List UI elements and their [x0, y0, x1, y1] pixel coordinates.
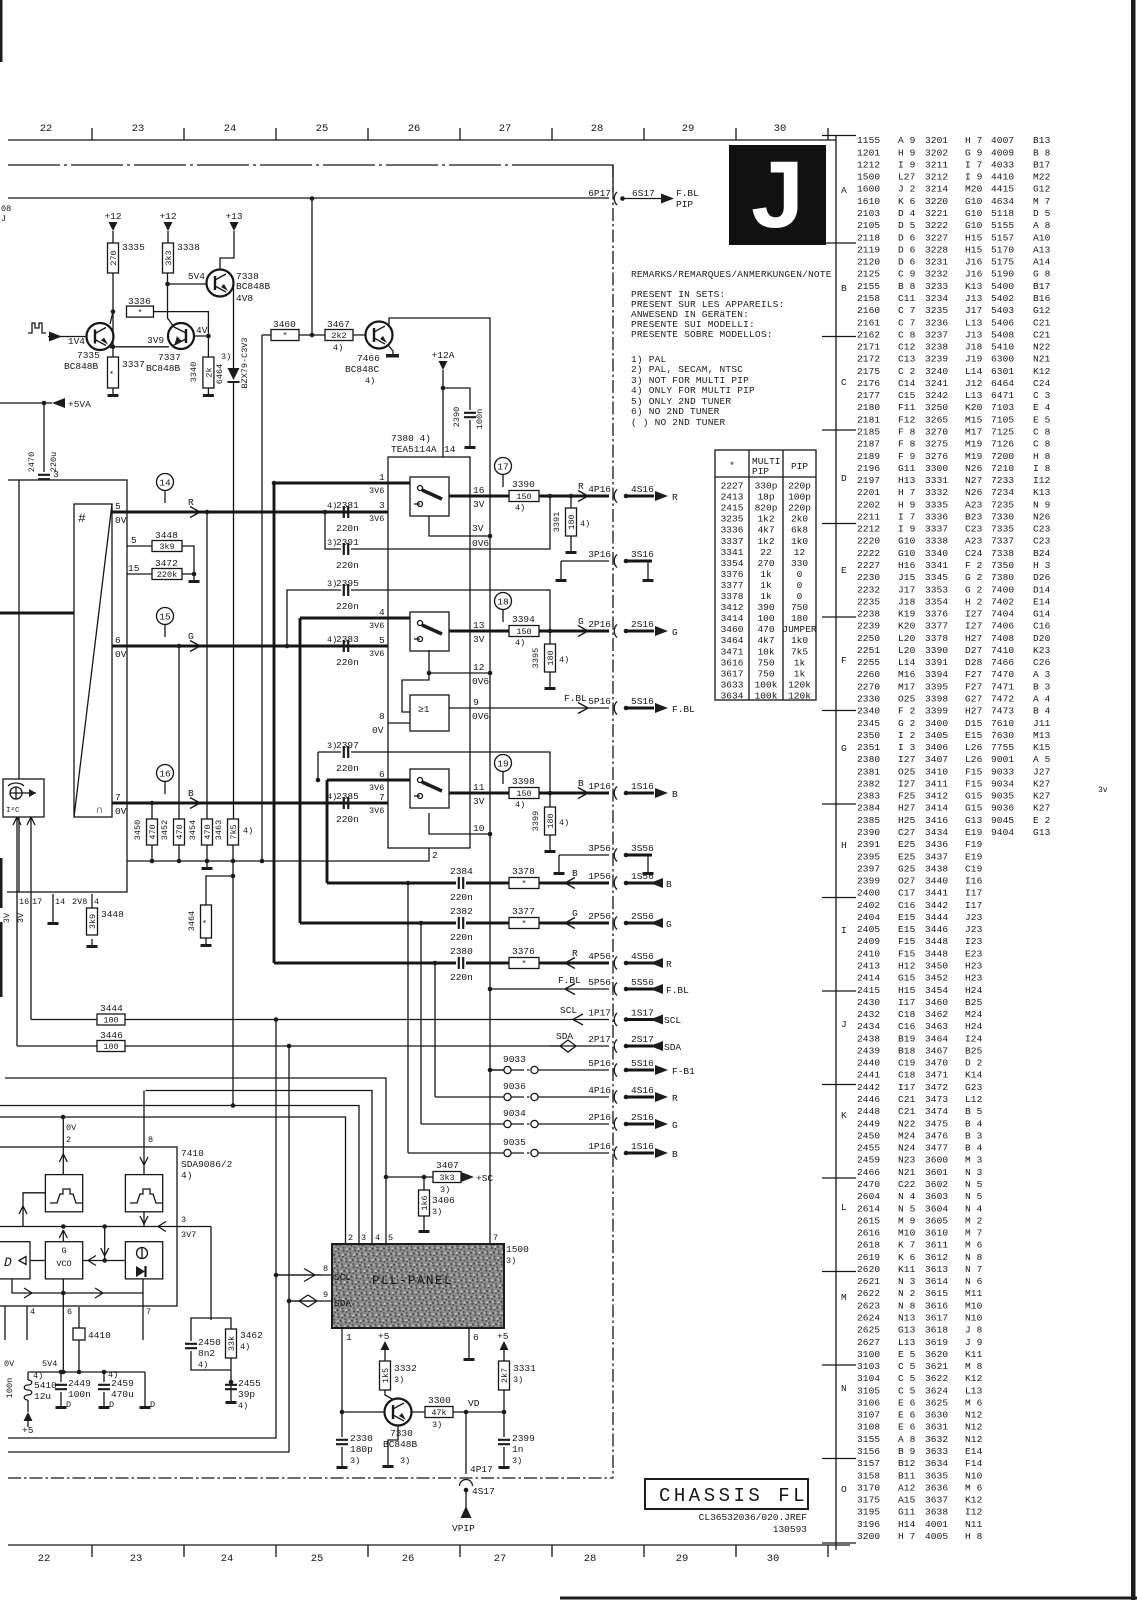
svg-text:1n: 1n: [512, 1444, 523, 1455]
capacitor C2470 220u: [43, 403, 45, 500]
connector 6P17/6S17: [614, 192, 617, 205]
svg-text:180p: 180p: [350, 1444, 373, 1455]
svg-text:2125C 93232J165190G 8: 2125C 93232J165190G 8: [857, 269, 1051, 280]
svg-text:3V: 3V: [473, 634, 485, 645]
wire SDA vertical to PLL: [289, 1046, 316, 1301]
svg-text:2459N233600M 3: 2459N233600M 3: [857, 1155, 983, 1166]
svg-text:220n: 220n: [450, 932, 473, 943]
resistor R3391: [570, 496, 572, 508]
svg-text:3331: 3331: [513, 1363, 536, 1374]
svg-text:G: G: [666, 919, 672, 930]
svg-text:PLL-PANEL: PLL-PANEL: [372, 1274, 453, 1288]
svg-text:3463: 3463: [214, 820, 224, 840]
svg-text:7335: 7335: [77, 350, 100, 361]
svg-text:2330: 2330: [350, 1433, 373, 1444]
svg-text:G: G: [578, 616, 584, 627]
svg-text:2620K113613N 7: 2620K113613N 7: [857, 1264, 982, 1275]
svg-text:29: 29: [682, 123, 695, 135]
wire F.BL 5P56 row: [490, 988, 609, 990]
svg-text:3464: 3464: [721, 635, 744, 646]
svg-text:100p: 100p: [788, 492, 811, 503]
svg-text:2382: 2382: [450, 906, 473, 917]
svg-text:180: 180: [567, 514, 577, 529]
svg-text:2380I273407L269001A 5: 2380I273407L269001A 5: [857, 754, 1051, 765]
bottom grid ruler: [8, 1544, 850, 1546]
svg-text:2235J183354H 27402E14: 2235J183354H 27402E14: [857, 596, 1051, 607]
svg-text:2230J153345G 27380D26: 2230J153345G 27380D26: [857, 572, 1051, 583]
svg-text:2350I 23405E157630M13: 2350I 23405E157630M13: [857, 730, 1051, 741]
svg-text:SDA: SDA: [556, 1031, 573, 1042]
svg-text:4): 4): [181, 1170, 192, 1181]
svg-text:3157B123634F14: 3157B123634F14: [857, 1458, 983, 1469]
connector 2S16b: [614, 1118, 617, 1131]
svg-text:3378: 3378: [512, 866, 535, 877]
svg-text:3200H 74005H 8: 3200H 74005H 8: [857, 1531, 983, 1542]
capacitor C2384: [459, 877, 463, 889]
ground gnd 2470: [43, 500, 45, 506]
svg-text:2P56: 2P56: [588, 911, 611, 922]
wire base: [342, 1411, 385, 1413]
svg-text:2103D 43221G105118D 5: 2103D 43221G105118D 5: [857, 208, 1051, 219]
svg-text:3332: 3332: [394, 1363, 417, 1374]
svg-text:3): 3): [350, 1456, 360, 1466]
remarks text block: [631, 270, 832, 340]
resistor R3336: [127, 306, 154, 317]
svg-text:2399O273440I16: 2399O273440I16: [857, 876, 983, 887]
svg-text:+12: +12: [159, 211, 176, 222]
svg-text:*: *: [521, 879, 526, 889]
resistor R3446: [97, 1041, 125, 1052]
wire pulse to 7335 base: [48, 336, 87, 338]
svg-text:*: *: [521, 919, 526, 929]
svg-text:J: J: [1, 214, 6, 224]
svg-text:16: 16: [159, 768, 171, 779]
ground gnd 3406: [423, 1224, 425, 1230]
resistor R3398: [509, 788, 539, 799]
svg-text:1P17: 1P17: [588, 1008, 611, 1019]
svg-text:3V9: 3V9: [147, 335, 164, 346]
svg-text:1k: 1k: [760, 591, 772, 602]
connector 4P56: [614, 957, 617, 970]
svg-text:3377: 3377: [721, 580, 744, 591]
svg-text:100: 100: [757, 613, 774, 624]
svg-text:2450: 2450: [198, 1337, 221, 1348]
svg-text:+SC: +SC: [476, 1173, 493, 1184]
svg-text:SDA: SDA: [664, 1042, 681, 1053]
wire 3P16 ground row: [561, 561, 609, 573]
svg-text:3V: 3V: [2, 912, 12, 923]
svg-text:4S17: 4S17: [472, 1486, 495, 1497]
connector 1P17: [614, 1013, 617, 1026]
wire G pin4 PIP input: [300, 617, 410, 620]
right page edge black bar: [1131, 0, 1136, 1600]
svg-text:7: 7: [493, 1233, 498, 1243]
switch SW-R: [410, 477, 449, 516]
svg-text:24: 24: [221, 1553, 234, 1565]
chassis title box: [645, 1479, 808, 1509]
wire B video line: [112, 802, 410, 805]
svg-text:2V8: 2V8: [72, 897, 87, 907]
svg-text:2442I173472G23: 2442I173472G23: [857, 1082, 983, 1093]
ground gnd 2459: [103, 1400, 105, 1406]
svg-text:3378: 3378: [721, 591, 744, 602]
svg-text:470: 470: [203, 824, 213, 839]
svg-text:2395E253437E19: 2395E253437E19: [857, 851, 983, 862]
svg-text:18: 18: [497, 596, 509, 607]
resistor R3335: [108, 243, 119, 273]
svg-text:100k: 100k: [755, 690, 778, 701]
svg-text:130593: 130593: [773, 1524, 808, 1535]
svg-text:22: 22: [40, 123, 53, 135]
svg-text:2330O253398G277472A 4: 2330O253398G277472A 4: [857, 694, 1051, 705]
loop filter 2450/3462: [211, 861, 233, 1320]
svg-text:8: 8: [379, 711, 385, 722]
svg-text:0V: 0V: [372, 725, 384, 736]
svg-text:F.BL: F.BL: [672, 704, 695, 715]
svg-text:PIP: PIP: [752, 466, 769, 477]
wire SDA net: [17, 1045, 609, 1047]
svg-text:2212I 93337C237335C23: 2212I 93337C237335C23: [857, 524, 1051, 535]
svg-text:6: 6: [115, 635, 121, 646]
svg-text:3158B113635N10: 3158B113635N10: [857, 1470, 983, 1481]
svg-text:SDA: SDA: [334, 1298, 351, 1309]
svg-text:17: 17: [32, 897, 42, 907]
wire R video line: [112, 511, 410, 514]
wire SCL into PLL: [276, 1274, 332, 1276]
svg-text:5: 5: [379, 635, 385, 646]
connector 4S16b: [614, 1091, 617, 1104]
wire B PIP row: [327, 882, 609, 885]
svg-text:VCO: VCO: [56, 1259, 71, 1269]
svg-text:CHASSIS FL: CHASSIS FL: [659, 1485, 808, 1507]
svg-text:2409F153448I23: 2409F153448I23: [857, 936, 983, 947]
wire SCL return to edge: [8, 1275, 276, 1438]
wire R out to connector: [539, 495, 609, 498]
svg-text:4S16: 4S16: [631, 1085, 654, 1096]
svg-text:3452: 3452: [160, 820, 170, 840]
svg-text:4: 4: [94, 897, 99, 907]
svg-text:2202H 93335A237235N 9: 2202H 93335A237235N 9: [857, 499, 1051, 510]
7410 bottom pins: [5, 1293, 143, 1372]
svg-text:3V6: 3V6: [369, 806, 384, 816]
zener diode 6464 BZX79-C3V3: [233, 382, 235, 400]
svg-text:3107E 63630N12: 3107E 63630N12: [857, 1410, 983, 1421]
svg-text:2380: 2380: [450, 946, 473, 957]
svg-text:2381: 2381: [336, 500, 359, 511]
svg-text:220n: 220n: [450, 972, 473, 983]
ground gnd 3340: [207, 388, 209, 394]
svg-text:0V: 0V: [66, 1123, 77, 1133]
capacitor C2397: [344, 746, 348, 758]
svg-text:2: 2: [348, 1233, 353, 1243]
resistor R3444: [97, 1014, 125, 1025]
svg-text:3): 3): [506, 1256, 516, 1266]
ground gnd 3S16: [647, 573, 649, 579]
page edge torn content marks: [0, 858, 3, 908]
svg-text:4): 4): [559, 655, 569, 665]
node node14: [157, 474, 174, 491]
svg-text:#: #: [78, 511, 86, 526]
svg-text:3300: 3300: [428, 1395, 451, 1406]
svg-text:3V6: 3V6: [369, 621, 384, 631]
svg-text:150: 150: [516, 492, 531, 502]
capacitor C2380: [459, 957, 463, 969]
resistor R3399: [549, 793, 551, 807]
svg-text:1P16: 1P16: [588, 781, 611, 792]
resistor R3331: [499, 1361, 510, 1390]
svg-text:4P16: 4P16: [588, 484, 611, 495]
svg-text:4): 4): [198, 1360, 208, 1370]
svg-text:1k5: 1k5: [381, 1368, 391, 1383]
wires I2C pins 16/17 down: [17, 817, 31, 1046]
svg-text:390: 390: [757, 602, 774, 613]
svg-text:1k0: 1k0: [791, 635, 808, 646]
wire shaper1 feedback loop: [23, 1193, 45, 1227]
wire 9033 drop from bus: [490, 1069, 504, 1071]
svg-text:2438B193464I24: 2438B193464I24: [857, 1033, 983, 1044]
svg-text:3155A 83632N12: 3155A 83632N12: [857, 1434, 983, 1445]
top-left page edge mark: [0, 0, 3, 62]
svg-text:BZX79-C3V3: BZX79-C3V3: [240, 337, 250, 388]
svg-text:12: 12: [794, 547, 806, 558]
svg-text:6: 6: [473, 1332, 479, 1343]
svg-text:SDA9086/2: SDA9086/2: [181, 1159, 233, 1170]
svg-text:D: D: [150, 1400, 155, 1410]
wire 3463 drop (from zener line): [233, 400, 235, 819]
wire 3V7 external: [177, 1226, 211, 1228]
jumper 9034: [421, 1123, 609, 1125]
svg-text:0: 0: [797, 580, 803, 591]
svg-text:27: 27: [494, 1553, 507, 1565]
node node19: [495, 755, 512, 772]
svg-text:2434C163463H24: 2434C163463H24: [857, 1021, 983, 1032]
svg-text:+12A: +12A: [432, 350, 455, 361]
svg-text:2201H 73332N267234K13: 2201H 73332N267234K13: [857, 487, 1051, 498]
svg-text:26: 26: [402, 1553, 415, 1565]
svg-text:3341: 3341: [721, 547, 744, 558]
svg-text:F: F: [841, 655, 847, 666]
svg-text:R: R: [666, 959, 672, 970]
svg-text:2470C223602N 5: 2470C223602N 5: [857, 1179, 983, 1190]
svg-text:13: 13: [473, 620, 485, 631]
parts cross-reference list: [857, 135, 1051, 1542]
svg-text:2: 2: [432, 850, 438, 861]
svg-text:B: B: [188, 788, 194, 799]
input pulse symbol: [28, 323, 46, 333]
transistor Q7338: [207, 270, 234, 297]
svg-text:2160C 73235J175403G12: 2160C 73235J175403G12: [857, 305, 1051, 316]
svg-text:G: G: [841, 743, 847, 754]
wire demod to VCO row: [83, 1260, 126, 1262]
svg-text:120k: 120k: [788, 690, 811, 701]
svg-text:2382I273411F159034K27: 2382I273411F159034K27: [857, 779, 1050, 790]
resistor R3463: [228, 819, 239, 845]
svg-text:3472: 3472: [155, 558, 178, 569]
svg-text:6: 6: [379, 769, 385, 780]
svg-text:5P56: 5P56: [588, 977, 611, 988]
svg-text:1P56: 1P56: [588, 871, 611, 882]
sheet marker J: [729, 145, 826, 245]
svg-text:3k9: 3k9: [159, 542, 174, 552]
svg-text:180: 180: [791, 613, 808, 624]
svg-text:2625G133618J 8: 2625G133618J 8: [857, 1325, 983, 1336]
svg-text:1k: 1k: [794, 668, 806, 679]
svg-text:33k: 33k: [227, 1336, 237, 1351]
svg-text:8: 8: [323, 1264, 328, 1274]
svg-text:2383F253412G159035K27: 2383F253412G159035K27: [857, 791, 1050, 802]
ground gnd 2330: [341, 1460, 343, 1466]
svg-text:47k: 47k: [431, 1408, 446, 1418]
svg-text:1: 1: [346, 1332, 352, 1343]
svg-text:R: R: [578, 481, 584, 492]
svg-text:M: M: [841, 1292, 847, 1303]
svg-text:9036: 9036: [503, 1081, 526, 1092]
svg-text:BC848C: BC848C: [345, 364, 380, 375]
svg-text:18p: 18p: [757, 492, 774, 503]
svg-text:3k3: 3k3: [164, 250, 174, 265]
svg-text:+5: +5: [378, 1331, 390, 1342]
connector 4S17 VPIP: [460, 1480, 473, 1487]
svg-text:2S56: 2S56: [631, 911, 654, 922]
svg-text:100: 100: [103, 1016, 118, 1026]
svg-text:G: G: [672, 1120, 678, 1131]
wire B switch output pin11: [449, 792, 509, 795]
svg-text:*: *: [137, 308, 142, 318]
resistor R3394: [509, 626, 539, 637]
svg-text:1k2: 1k2: [757, 536, 774, 547]
svg-text:2621N 33614N 6: 2621N 33614N 6: [857, 1276, 983, 1287]
svg-text:2459: 2459: [111, 1378, 134, 1389]
svg-text:7: 7: [379, 792, 385, 803]
svg-text:G: G: [61, 1246, 66, 1256]
svg-text:2455: 2455: [238, 1378, 261, 1389]
svg-text:3V6: 3V6: [369, 514, 384, 524]
svg-text:2432C183462M24: 2432C183462M24: [857, 1009, 983, 1020]
svg-text:3106E 63625M 6: 3106E 63625M 6: [857, 1397, 983, 1408]
svg-text:2197H133331N277233I12: 2197H133331N277233I12: [857, 475, 1051, 486]
svg-text:2: 2: [66, 1135, 71, 1145]
svg-text:4): 4): [365, 376, 375, 386]
resistor R3391: [566, 508, 577, 536]
interface boundary bottom dash-dot: [8, 1477, 613, 1479]
svg-text:3354: 3354: [721, 558, 744, 569]
svg-text:820p: 820p: [755, 503, 778, 514]
svg-text:2450M243476B 3: 2450M243476B 3: [857, 1130, 983, 1141]
resistor R3448a: [152, 541, 182, 552]
interface boundary P/S dash-dot vertical: [612, 165, 614, 1478]
ground gnd video divider: [206, 861, 208, 867]
ground gnd 7330: [387, 1459, 389, 1465]
svg-text:23: 23: [132, 123, 145, 135]
capacitor C2395: [344, 584, 348, 596]
svg-text:3P56: 3P56: [588, 843, 611, 854]
svg-text:2161C 73236L135406C21: 2161C 73236L135406C21: [857, 317, 1051, 328]
svg-text:3V: 3V: [472, 523, 484, 534]
capacitor C2455: [225, 1385, 237, 1389]
svg-text:17: 17: [497, 461, 508, 472]
ground gnd 3391: [570, 545, 572, 551]
svg-text:2385: 2385: [336, 791, 359, 802]
svg-text:7330: 7330: [390, 1428, 413, 1439]
svg-text:TEA5114A: TEA5114A: [391, 444, 437, 455]
svg-text:2239K203377I277406C16: 2239K203377I277406C16: [857, 621, 1051, 632]
resistor R3462: [226, 1329, 237, 1358]
svg-text:2340F 23399H277473B 4: 2340F 23399H277473B 4: [857, 706, 1051, 717]
wire drops to jumpers: [406, 881, 411, 886]
svg-text:2449: 2449: [68, 1378, 91, 1389]
svg-text:K: K: [841, 1110, 847, 1121]
video box U-left outline: [19, 480, 127, 892]
IC U7380 TEA5114A: [388, 457, 470, 848]
svg-text:3): 3): [400, 1456, 410, 1466]
svg-text:1k6: 1k6: [420, 1195, 430, 1210]
wire VD to 4P17: [465, 1412, 467, 1474]
svg-text:180: 180: [546, 650, 556, 665]
svg-text:6P17: 6P17: [588, 188, 611, 199]
svg-text:5P16: 5P16: [588, 696, 611, 707]
svg-text:3395: 3395: [531, 648, 541, 668]
svg-text:220n: 220n: [336, 657, 359, 668]
svg-text:3: 3: [53, 469, 59, 480]
svg-text:100k: 100k: [755, 679, 778, 690]
svg-text:2k2: 2k2: [331, 331, 346, 341]
svg-text:3399: 3399: [531, 811, 541, 831]
wire +12A to IC pin 14 and 2390: [443, 382, 470, 457]
svg-text:*: *: [109, 370, 119, 375]
svg-text:2624N133617N10: 2624N133617N10: [857, 1313, 983, 1324]
svg-text:4): 4): [559, 818, 569, 828]
svg-text:2P16: 2P16: [588, 619, 611, 630]
wire VCO top: [62, 1230, 64, 1242]
svg-text:3235: 3235: [721, 514, 744, 525]
svg-text:150: 150: [516, 627, 531, 637]
switch SW-B: [410, 769, 449, 808]
svg-text:5: 5: [131, 535, 137, 546]
svg-text:4): 4): [238, 1401, 248, 1411]
svg-text:0V: 0V: [115, 515, 127, 526]
svg-text:G: G: [672, 627, 678, 638]
svg-text:4P17: 4P17: [470, 1464, 493, 1475]
svg-text:SCL: SCL: [664, 1015, 681, 1026]
svg-text:220p: 220p: [788, 503, 811, 514]
svg-text:I: I: [841, 925, 847, 936]
svg-text:CL36532036/020.JREF: CL36532036/020.JREF: [699, 1512, 808, 1523]
svg-text:2S16: 2S16: [631, 1112, 654, 1123]
page divider dash-dot line: [8, 164, 555, 166]
svg-text:G: G: [572, 908, 578, 919]
transistor Q7330: [385, 1399, 412, 1426]
resistor R3378: [509, 878, 539, 889]
svg-text:2414G153452H23: 2414G153452H23: [857, 973, 983, 984]
svg-text:2251L203390D277410K23: 2251L203390D277410K23: [857, 645, 1051, 656]
svg-text:3v: 3v: [1098, 786, 1108, 795]
svg-text:12: 12: [473, 662, 485, 673]
svg-text:2441C183471K14: 2441C183471K14: [857, 1070, 983, 1081]
I2C block: [3, 779, 44, 817]
svg-text:30: 30: [767, 1553, 780, 1565]
svg-text:220n: 220n: [336, 601, 359, 612]
svg-text:3): 3): [432, 1420, 442, 1430]
wire 3P56 ground row: [559, 855, 609, 866]
svg-text:2250L203378H277408D20: 2250L203378H277408D20: [857, 633, 1051, 644]
svg-text:3V6: 3V6: [369, 486, 384, 496]
capacitor C2449: [55, 1385, 67, 1389]
svg-text:2439B183467B25: 2439B183467B25: [857, 1046, 983, 1057]
svg-text:2k7: 2k7: [500, 1368, 510, 1383]
svg-text:19: 19: [497, 758, 509, 769]
svg-text:3S16: 3S16: [631, 549, 654, 560]
wire G input from left: [0, 612, 74, 615]
